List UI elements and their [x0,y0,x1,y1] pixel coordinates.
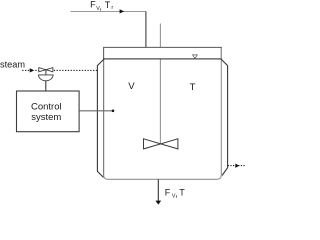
svg-text:steam: steam [0,60,25,70]
svg-text:,: , [175,189,178,199]
svg-text:V: V [128,81,135,92]
svg-text:,: , [99,1,102,11]
svg-text:r: r [111,5,113,11]
svg-text:F: F [90,0,96,10]
svg-text:T: T [190,82,196,93]
svg-text:Control: Control [31,102,62,113]
svg-text:F: F [165,187,171,197]
svg-text:T: T [179,187,185,197]
svg-text:system: system [31,112,61,123]
svg-text:T: T [105,0,111,10]
